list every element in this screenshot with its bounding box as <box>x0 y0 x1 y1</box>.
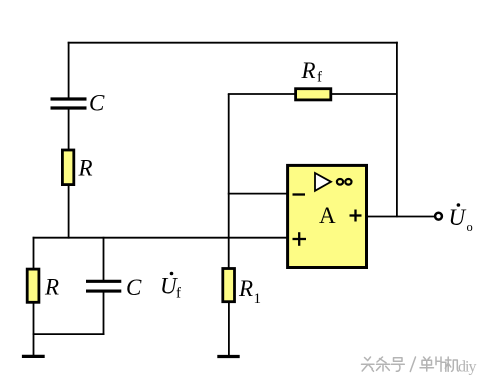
label Uo (output voltage) <box>449 203 473 234</box>
svg-text:R: R <box>78 156 93 181</box>
wire bottom horizontal joining parallel R and parallel C <box>33 333 105 335</box>
wire right vertical output net (top wire down to output wire) <box>396 42 398 218</box>
wire top horizontal from output net to series branch <box>68 42 398 44</box>
wire Rf horizontal (inverting node to output net) <box>228 93 397 95</box>
svg-text:f: f <box>317 70 322 86</box>
resistor Rf <box>296 89 331 100</box>
op-amp inverting input minus sign <box>293 193 306 195</box>
wire below R1 to ground <box>228 303 230 357</box>
wire output horizontal <box>368 216 435 218</box>
op-amp non-inverting input plus sign <box>293 232 307 246</box>
capacitor C (series) <box>51 99 87 108</box>
wire node horizontal (non-inverting input net) <box>33 237 288 239</box>
wire from parallel C bottom plate down to bottom wire <box>103 292 105 336</box>
terminal (output) <box>435 213 442 220</box>
resistor R1 <box>223 269 235 302</box>
ground (middle, below R1) <box>217 355 239 358</box>
svg-text:C: C <box>126 275 142 300</box>
capacitor C (parallel) <box>86 281 121 291</box>
wire from node down to parallel R <box>33 237 35 270</box>
op-amp output polarity plus sign <box>350 210 362 222</box>
infinity symbol <box>337 179 352 185</box>
wire between series R and input node <box>68 186 70 239</box>
op-amp gain triangle symbol <box>315 173 331 191</box>
svg-text:o: o <box>467 220 473 234</box>
op-amp U1 (A) body <box>288 165 367 267</box>
svg-text:diy: diy <box>458 359 476 376</box>
svg-text:f: f <box>176 286 181 302</box>
resistor R (series) <box>62 150 73 185</box>
value label R1 <box>238 276 261 307</box>
ground (left) <box>22 355 45 358</box>
wire from node down to parallel C top plate <box>103 237 105 281</box>
svg-text:C: C <box>89 91 105 116</box>
wire between series C and series R <box>68 110 70 152</box>
value label Rf <box>301 58 323 86</box>
svg-text:R: R <box>301 58 316 83</box>
resistor R (parallel) <box>27 269 39 302</box>
wire vertical inverting-input net (from Rf wire down to R1) <box>228 94 230 269</box>
wire below parallel R to ground <box>33 304 35 357</box>
svg-text:1: 1 <box>254 291 262 307</box>
wire left vertical upper (top wire to capacitor C) <box>68 42 70 98</box>
svg-text:R: R <box>238 276 253 301</box>
svg-text:U: U <box>449 205 467 230</box>
svg-text:A: A <box>319 203 336 228</box>
node Uf label (feedback voltage) <box>160 272 181 302</box>
svg-text:R: R <box>44 275 59 300</box>
wire inverting input horizontal <box>228 193 288 195</box>
